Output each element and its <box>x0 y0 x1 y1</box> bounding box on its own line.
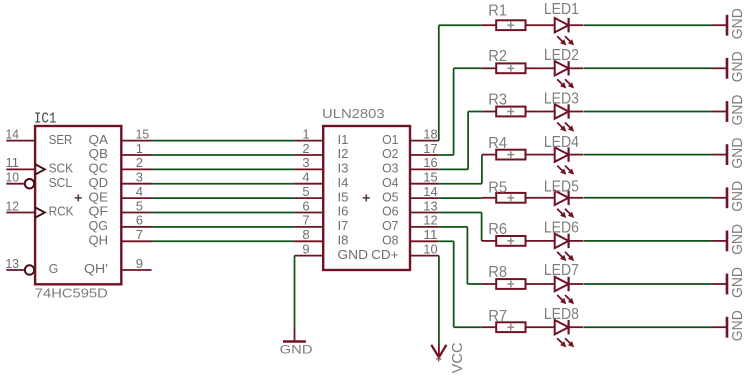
svg-text:11: 11 <box>6 155 20 170</box>
svg-text:O4: O4 <box>382 176 398 190</box>
svg-text:I7: I7 <box>338 219 349 233</box>
svg-text:2: 2 <box>302 141 309 156</box>
svg-text:R5: R5 <box>488 179 507 196</box>
svg-text:VCC: VCC <box>450 342 466 373</box>
svg-text:I6: I6 <box>338 205 349 219</box>
svg-text:5: 5 <box>136 198 143 213</box>
svg-text:18: 18 <box>423 126 437 141</box>
svg-text:O6: O6 <box>382 205 398 219</box>
svg-text:O3: O3 <box>382 162 398 176</box>
svg-text:16: 16 <box>423 155 437 170</box>
svg-text:4: 4 <box>302 170 309 185</box>
svg-text:7: 7 <box>302 213 309 228</box>
svg-text:I2: I2 <box>338 147 349 161</box>
svg-text:15: 15 <box>136 126 150 141</box>
svg-text:QH': QH' <box>84 262 108 276</box>
svg-text:3: 3 <box>136 170 143 185</box>
svg-text:O5: O5 <box>382 190 398 204</box>
svg-text:I5: I5 <box>338 190 349 204</box>
svg-text:SCK: SCK <box>49 162 74 176</box>
svg-text:13: 13 <box>6 256 20 271</box>
svg-text:10: 10 <box>6 170 20 185</box>
svg-text:CD+: CD+ <box>371 248 398 262</box>
svg-text:QG: QG <box>89 219 109 233</box>
svg-text:17: 17 <box>423 141 437 156</box>
svg-text:QD: QD <box>89 176 109 190</box>
svg-text:LED2: LED2 <box>544 47 579 64</box>
svg-text:GND: GND <box>730 138 746 169</box>
svg-text:12: 12 <box>423 213 437 228</box>
svg-text:O7: O7 <box>382 219 398 233</box>
svg-text:LED4: LED4 <box>544 134 579 151</box>
svg-text:8: 8 <box>302 227 309 242</box>
svg-text:G: G <box>49 262 59 276</box>
svg-text:12: 12 <box>6 198 20 213</box>
svg-text:O2: O2 <box>382 147 398 161</box>
svg-text:GND: GND <box>730 51 746 82</box>
svg-text:6: 6 <box>302 198 309 213</box>
svg-text:O1: O1 <box>382 133 398 147</box>
svg-text:5: 5 <box>302 184 309 199</box>
svg-text:I1: I1 <box>338 133 349 147</box>
svg-text:14: 14 <box>423 184 437 199</box>
svg-text:6: 6 <box>136 213 143 228</box>
svg-text:I4: I4 <box>338 176 349 190</box>
svg-text:QB: QB <box>89 147 109 161</box>
svg-text:QE: QE <box>89 190 109 204</box>
svg-text:R1: R1 <box>488 3 507 20</box>
svg-text:3: 3 <box>302 155 309 170</box>
svg-text:QA: QA <box>89 133 109 147</box>
svg-text:LED8: LED8 <box>544 306 579 323</box>
svg-text:74HC595D: 74HC595D <box>35 286 108 301</box>
svg-text:SER: SER <box>49 133 73 147</box>
svg-text:LED1: LED1 <box>544 1 579 18</box>
svg-text:10: 10 <box>423 241 437 256</box>
svg-text:SCL: SCL <box>49 176 73 190</box>
svg-text:GND: GND <box>730 224 746 255</box>
svg-text:I3: I3 <box>338 162 349 176</box>
svg-text:GND: GND <box>730 8 746 39</box>
svg-text:GND: GND <box>730 95 746 126</box>
svg-text:QH: QH <box>89 234 109 248</box>
svg-text:R3: R3 <box>488 91 507 108</box>
svg-text:R7: R7 <box>488 308 507 325</box>
svg-text:IC1: IC1 <box>34 111 57 128</box>
svg-text:GND: GND <box>730 267 746 298</box>
svg-text:O8: O8 <box>382 234 398 248</box>
svg-text:14: 14 <box>6 126 20 141</box>
svg-text:GND: GND <box>280 343 313 357</box>
svg-text:GND: GND <box>730 181 746 212</box>
svg-text:11: 11 <box>423 227 437 242</box>
svg-text:R6: R6 <box>488 221 507 238</box>
svg-text:13: 13 <box>423 198 437 213</box>
svg-text:QF: QF <box>89 205 109 219</box>
svg-text:1: 1 <box>302 126 309 141</box>
svg-text:GND: GND <box>730 310 746 341</box>
svg-text:9: 9 <box>136 256 143 271</box>
svg-text:7: 7 <box>136 227 143 242</box>
svg-text:I8: I8 <box>338 234 349 248</box>
svg-text:15: 15 <box>423 170 437 185</box>
svg-text:RCK: RCK <box>49 205 75 219</box>
svg-text:QC: QC <box>89 162 109 176</box>
svg-text:LED7: LED7 <box>544 262 579 279</box>
svg-text:ULN2803: ULN2803 <box>322 106 385 121</box>
svg-text:1: 1 <box>136 141 143 156</box>
svg-text:9: 9 <box>302 241 309 256</box>
svg-text:GND: GND <box>338 248 369 262</box>
svg-text:4: 4 <box>136 184 143 199</box>
svg-text:R8: R8 <box>488 264 507 281</box>
svg-text:LED6: LED6 <box>544 220 579 237</box>
svg-text:R4: R4 <box>488 135 507 152</box>
svg-text:LED5: LED5 <box>544 178 579 195</box>
svg-text:LED3: LED3 <box>544 91 579 108</box>
svg-text:R2: R2 <box>488 48 507 65</box>
svg-text:2: 2 <box>136 155 143 170</box>
